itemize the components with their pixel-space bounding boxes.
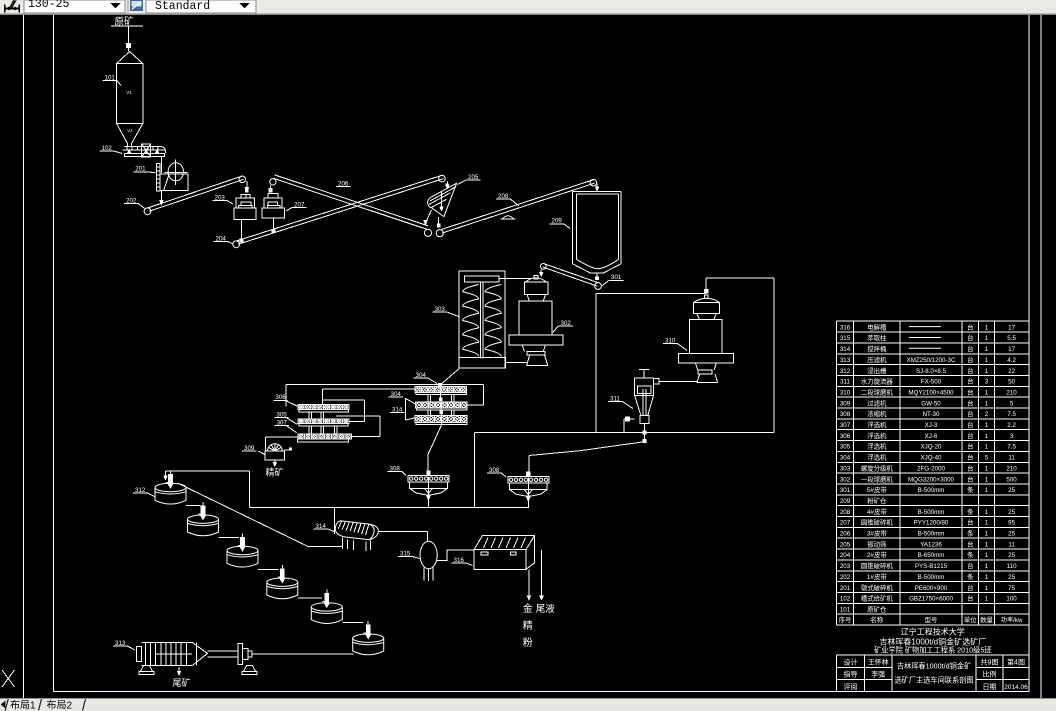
svg-text:110: 110 — [1007, 563, 1017, 570]
svg-text:MQY2100×4500: MQY2100×4500 — [908, 390, 954, 397]
svg-text:Standard: Standard — [155, 0, 210, 13]
table 314 legs — [342, 538, 344, 550]
svg-text:102: 102 — [840, 596, 851, 603]
svg-text:25: 25 — [1008, 531, 1015, 538]
svg-text:311: 311 — [840, 379, 850, 386]
svg-text:GW-50: GW-50 — [921, 400, 941, 407]
svg-text:振动筛: 振动筛 — [867, 539, 887, 548]
svg-text:207: 207 — [840, 520, 851, 527]
svg-text:设计: 设计 — [844, 657, 858, 667]
svg-text:22: 22 — [1008, 368, 1015, 375]
svg-text:1: 1 — [985, 476, 989, 483]
svg-text:台: 台 — [967, 561, 973, 570]
svg-text:共9图: 共9图 — [981, 657, 999, 667]
svg-text:B-500mm: B-500mm — [918, 531, 945, 538]
inter-row launders left bank — [309, 412, 312, 419]
layout tab 布局1 — [5, 699, 8, 711]
svg-text:条: 条 — [967, 550, 974, 559]
svg-text:B-500mm: B-500mm — [918, 509, 945, 516]
svg-text:203: 203 — [840, 563, 851, 570]
svg-text:台: 台 — [967, 388, 973, 397]
svg-text:数量: 数量 — [980, 615, 993, 624]
wire launder drop to shaking table 314 — [333, 508, 335, 535]
svg-text:25: 25 — [1008, 487, 1015, 494]
wire screen undersize to belt 208 — [438, 217, 440, 226]
svg-text:原矿仓: 原矿仓 — [867, 605, 887, 614]
wire right row2 overflow loop — [467, 404, 483, 406]
regrind circuit loop piping — [595, 294, 597, 433]
svg-text:1: 1 — [985, 531, 989, 538]
svg-text:1: 1 — [985, 563, 989, 570]
svg-text:颚式破碎机: 颚式破碎机 — [861, 583, 894, 592]
svg-text:50: 50 — [1008, 379, 1015, 386]
svg-text:5: 5 — [985, 455, 989, 462]
wire mill 310 discharge to cyclone feed — [659, 380, 698, 382]
svg-text:吉林珲春1000t/d铜金矿: 吉林珲春1000t/d铜金矿 — [897, 662, 971, 672]
application toolbar — [0, 0, 1056, 15]
wire belt 208 discharge into bin 209 — [590, 179, 597, 186]
svg-text:SJ-8.0×8.5: SJ-8.0×8.5 — [916, 368, 947, 375]
svg-text:202: 202 — [840, 574, 851, 581]
wire belt 204 discharge into screen — [447, 182, 449, 187]
belt 208 idler symbol — [503, 216, 514, 219]
thickener 308 right (浓缩机) — [508, 477, 549, 484]
svg-text:100: 100 — [1006, 596, 1017, 603]
svg-text:台: 台 — [967, 539, 973, 548]
svg-text:B-650mm: B-650mm — [918, 552, 945, 559]
belt conveyor 206 (3#皮带) tail pulley under screen — [424, 229, 431, 236]
svg-text:4#皮带: 4#皮带 — [867, 507, 887, 516]
svg-text:XMZ250/1200-3C: XMZ250/1200-3C — [907, 357, 956, 364]
svg-text:YA1236: YA1236 — [920, 541, 942, 548]
wire gold concentrate out — [528, 569, 530, 596]
UCS icon — [2, 670, 15, 687]
svg-text:台: 台 — [967, 344, 973, 353]
wire left thickener underflow — [427, 499, 429, 508]
svg-text:过滤机: 过滤机 — [867, 398, 887, 407]
layout tab scroll arrow — [1, 701, 6, 709]
wire barren solution out — [541, 550, 543, 597]
svg-text:303: 303 — [840, 465, 851, 472]
cyclone underflow pump — [626, 417, 630, 421]
title block grid — [837, 654, 1030, 656]
svg-text:130-25: 130-25 — [28, 0, 70, 11]
powder ore bin 209 (粉矿仓) — [572, 192, 621, 273]
svg-text:台: 台 — [967, 474, 973, 483]
svg-text:302: 302 — [840, 476, 851, 483]
svg-text:台: 台 — [967, 333, 973, 342]
toolbar text-style combo Standard — [146, 0, 256, 13]
svg-text:评阅: 评阅 — [844, 682, 858, 692]
drawing frame outer left edge — [23, 15, 25, 698]
wire filter 309 concentrate out — [274, 460, 276, 464]
svg-text:尾矿: 尾矿 — [173, 676, 191, 689]
svg-text:单位: 单位 — [964, 615, 977, 624]
drawing frame inner border — [53, 15, 55, 692]
svg-text:5: 5 — [1010, 400, 1014, 407]
svg-text:11: 11 — [1008, 541, 1015, 548]
svg-text:312: 312 — [840, 368, 851, 375]
wire screen oversize chute to belt 206 — [426, 210, 431, 222]
svg-text:7.5: 7.5 — [1007, 411, 1016, 418]
svg-text:1: 1 — [985, 552, 989, 559]
flow line through right bank — [439, 384, 442, 387]
svg-text:1: 1 — [985, 465, 989, 472]
svg-text:PYY1200/80: PYY1200/80 — [914, 520, 949, 527]
svg-text:1#皮带: 1#皮带 — [867, 572, 887, 581]
svg-text:精: 精 — [523, 617, 533, 632]
cleaner flotation bank row 2 (305) — [298, 419, 349, 424]
svg-text:序号: 序号 — [839, 615, 852, 624]
svg-text:矿业学院 矿物加工工程系 2010级5班: 矿业学院 矿物加工工程系 2010级5班 — [874, 646, 991, 656]
leach tank 6 — [353, 634, 384, 642]
wire cleaner concentrate to disc filter 309 — [265, 436, 297, 438]
wire launder drop to leach tank 1 — [165, 471, 167, 477]
svg-text:NT-30: NT-30 — [923, 411, 940, 418]
wire pregnant solution launder — [178, 483, 308, 546]
inter-row launders right bank — [428, 395, 431, 402]
svg-text:金: 金 — [523, 600, 533, 615]
svg-text:1: 1 — [985, 444, 989, 451]
svg-text:17: 17 — [1008, 324, 1015, 331]
wire cyclone overflow down to thickener 308 — [644, 424, 646, 442]
svg-text:浮选机: 浮选机 — [867, 453, 887, 462]
svg-text:V1: V1 — [126, 90, 132, 95]
svg-text:条: 条 — [967, 485, 974, 494]
svg-text:功率/kw: 功率/kw — [1001, 615, 1023, 624]
wire cone 203 discharge to belt 204 — [241, 219, 243, 241]
svg-text:5#皮带: 5#皮带 — [867, 485, 887, 494]
belt conveyor 301 (5#皮带) — [540, 264, 546, 270]
svg-text:1: 1 — [985, 390, 989, 397]
svg-text:台: 台 — [967, 398, 973, 407]
svg-text:台: 台 — [967, 431, 973, 440]
svg-text:314: 314 — [840, 346, 851, 353]
svg-text:萃取柱: 萃取柱 — [867, 333, 887, 342]
svg-text:1: 1 — [985, 335, 989, 342]
belt conveyor 202 (1#皮带) — [144, 208, 151, 215]
svg-text:第4图: 第4图 — [1007, 657, 1025, 667]
svg-text:210: 210 — [1006, 390, 1017, 397]
drawing frame outer right edge — [1040, 15, 1042, 698]
svg-text:条: 条 — [967, 529, 974, 538]
svg-text:1: 1 — [985, 400, 989, 407]
wire classifier overflow to rougher flotation — [440, 369, 459, 386]
wire jaw crusher discharge to belt 202 — [160, 191, 162, 202]
svg-text:V2: V2 — [127, 128, 133, 133]
leach tank 2 — [188, 515, 219, 523]
svg-text:XJQ-40: XJQ-40 — [921, 455, 943, 462]
ball mill 310 (二段球磨机) — [704, 295, 708, 298]
toolbar dimension-style icon — [4, 5, 20, 13]
wire column 315 to electrowinning cell 316 — [437, 550, 474, 561]
belt conveyor 204 (2#皮带) — [233, 241, 240, 248]
svg-text:2: 2 — [985, 411, 989, 418]
svg-text:95: 95 — [1008, 520, 1015, 527]
svg-text:台: 台 — [967, 453, 973, 462]
svg-text:1: 1 — [985, 433, 989, 440]
rougher flotation bank row 2 — [416, 402, 467, 408]
svg-text:王怀林: 王怀林 — [868, 657, 889, 667]
svg-text:粉矿仓: 粉矿仓 — [867, 496, 887, 505]
svg-text:2#皮带: 2#皮带 — [867, 550, 887, 559]
svg-text:浮选机: 浮选机 — [867, 431, 887, 440]
svg-text:台: 台 — [967, 463, 973, 472]
cone crusher 207 (圆锥破碎机) — [269, 189, 272, 192]
extraction column 315 (萃取柱) — [420, 541, 437, 569]
leach tank 1 — [155, 483, 186, 491]
filter press 313 (压滤机) — [137, 647, 142, 662]
svg-text:5.5: 5.5 — [1007, 335, 1016, 342]
svg-text:二段球磨机: 二段球磨机 — [861, 388, 894, 397]
wire belt 301 discharge into ball mill 302 — [540, 269, 542, 273]
svg-text:3#皮带: 3#皮带 — [867, 529, 887, 538]
svg-text:电解槽: 电解槽 — [867, 322, 887, 331]
svg-text:1: 1 — [985, 487, 989, 494]
electrowinning cell 316 (电解槽) — [474, 550, 526, 570]
svg-text:1: 1 — [985, 541, 989, 548]
svg-text:台: 台 — [967, 442, 973, 451]
wire table 314 to extraction column 315 — [379, 531, 427, 533]
svg-text:原矿: 原矿 — [115, 14, 135, 28]
wire classifier sands return to mill 302 — [499, 278, 531, 280]
wire press tailings out — [178, 667, 180, 673]
rougher flotation bank 304 row 1 — [415, 387, 466, 393]
svg-text:205: 205 — [840, 541, 851, 548]
svg-text:B-500mm: B-500mm — [918, 487, 945, 494]
svg-text:比例: 比例 — [983, 669, 997, 679]
svg-text:11: 11 — [1008, 455, 1015, 462]
wire right bank row3 to thickener 308 — [428, 424, 442, 454]
svg-text:1: 1 — [985, 574, 989, 581]
svg-text:1: 1 — [985, 324, 989, 331]
svg-text:台: 台 — [967, 409, 973, 418]
wire belt 202 discharge to cone crusher 203 — [246, 181, 248, 189]
svg-text:1: 1 — [985, 422, 989, 429]
svg-text:XJ-3: XJ-3 — [925, 422, 938, 429]
wire mill 302 discharge to classifier — [506, 361, 527, 363]
svg-text:2.2: 2.2 — [1007, 422, 1016, 429]
belt conveyor 208 (4#皮带) — [436, 230, 443, 237]
leach tank 3 — [227, 546, 258, 554]
leach tank 4 — [267, 578, 298, 586]
svg-text:FX-500: FX-500 — [921, 379, 942, 386]
svg-text:2FG-2000: 2FG-2000 — [917, 465, 945, 472]
thickener 308 left (浓缩机) — [408, 475, 449, 482]
svg-text:台: 台 — [967, 377, 973, 386]
cone crusher 203 (圆锥破碎机) — [246, 189, 249, 192]
svg-text:313: 313 — [840, 357, 851, 364]
svg-text:浮选机: 浮选机 — [867, 442, 887, 451]
jaw crusher 201 (颚式破碎机) — [160, 156, 162, 172]
svg-text:25: 25 — [1008, 552, 1015, 559]
wire thickener underflow launder to leach tanks — [166, 470, 250, 472]
feeder 102 (槽式给矿机) — [124, 146, 161, 148]
svg-text:精矿: 精矿 — [266, 466, 284, 479]
svg-text:名称: 名称 — [870, 615, 883, 624]
svg-text:301: 301 — [840, 487, 851, 494]
svg-text:MQG3200×3000: MQG3200×3000 — [908, 476, 954, 483]
svg-text:圆锥破碎机: 圆锥破碎机 — [861, 518, 894, 527]
svg-text:XJQ-20: XJQ-20 — [921, 444, 943, 451]
wire leach tank 6 to filter press — [252, 653, 353, 655]
svg-text:310: 310 — [840, 390, 851, 397]
hydrocyclone 311 (水力旋流器) — [639, 369, 650, 371]
filter press feet — [141, 666, 153, 672]
svg-text:1: 1 — [985, 520, 989, 527]
svg-text:308: 308 — [840, 411, 851, 418]
svg-text:500: 500 — [1006, 476, 1017, 483]
ball mill 302 (一段球磨机) — [534, 276, 538, 280]
svg-text:3: 3 — [985, 379, 989, 386]
svg-text:选矿厂主选车间联系剖图: 选矿厂主选车间联系剖图 — [894, 676, 973, 686]
svg-text:208: 208 — [840, 509, 851, 516]
svg-text:209: 209 — [840, 498, 851, 505]
wire right thickener underflow — [527, 500, 529, 508]
svg-text:台: 台 — [967, 583, 973, 592]
svg-text:75: 75 — [1008, 585, 1015, 592]
toolbar text-style icon — [130, 0, 143, 11]
svg-text:2014.06: 2014.06 — [1004, 684, 1028, 691]
svg-text:台: 台 — [967, 594, 973, 603]
svg-text:布局2: 布局2 — [47, 697, 73, 711]
svg-text:315: 315 — [840, 335, 851, 342]
svg-text:浮选机: 浮选机 — [867, 420, 887, 429]
svg-text:25: 25 — [1008, 574, 1015, 581]
wire belt 206 discharge into cone crusher 207 — [270, 185, 272, 190]
svg-text:101: 101 — [840, 607, 851, 614]
svg-text:304: 304 — [840, 455, 851, 462]
svg-text:25: 25 — [1008, 509, 1015, 516]
silo 101 (原矿仓) — [117, 64, 143, 124]
svg-text:条: 条 — [967, 507, 974, 516]
equipment table frame — [837, 320, 1030, 322]
svg-text:XJ-6: XJ-6 — [925, 433, 938, 440]
spiral classifier 303 (螺旋分级机) — [459, 271, 505, 368]
disc filter 309 (过滤机) — [268, 444, 283, 451]
wire bin 209 outlet to belt 301 — [596, 273, 598, 277]
svg-text:水力旋流器: 水力旋流器 — [861, 377, 894, 386]
svg-text:日期: 日期 — [983, 682, 997, 692]
svg-text:一段球磨机: 一段球磨机 — [861, 474, 894, 483]
svg-text:圆锥破碎机: 圆锥破碎机 — [861, 561, 894, 570]
svg-text:PYS-B1215: PYS-B1215 — [915, 563, 948, 570]
svg-text:型号: 型号 — [925, 615, 938, 624]
svg-text:浸出槽: 浸出槽 — [867, 366, 887, 375]
svg-text:306: 306 — [840, 433, 851, 440]
svg-text:316: 316 — [840, 324, 851, 331]
toolbar dim-style combo 130-25 — [24, 0, 125, 13]
svg-text:GBZ1750×6000: GBZ1750×6000 — [909, 596, 953, 603]
svg-text:17: 17 — [1008, 346, 1015, 353]
wire rougher feed line to cleaner bank — [286, 384, 484, 386]
svg-text:粉: 粉 — [523, 634, 533, 649]
svg-text:PE600×900: PE600×900 — [915, 585, 948, 592]
svg-text:201: 201 — [840, 585, 851, 592]
svg-text:布局1: 布局1 — [10, 697, 36, 711]
svg-text:204: 204 — [840, 552, 851, 559]
wire cone 207 discharge to belt 204 — [273, 218, 275, 231]
svg-text:307: 307 — [840, 422, 851, 429]
svg-text:1: 1 — [985, 346, 989, 353]
svg-text:206: 206 — [840, 531, 851, 538]
cleaner flotation bank row 3 (307) — [298, 434, 352, 439]
svg-text:李强: 李强 — [871, 669, 885, 679]
svg-text:3: 3 — [1010, 433, 1014, 440]
wire raw ore into silo — [128, 48, 130, 52]
svg-text:1: 1 — [985, 357, 989, 364]
svg-text:台: 台 — [967, 420, 973, 429]
svg-text:螺旋分级机: 螺旋分级机 — [861, 463, 894, 472]
svg-text:台: 台 — [967, 355, 973, 364]
svg-text:条: 条 — [967, 572, 974, 581]
svg-text:7.5: 7.5 — [1007, 444, 1016, 451]
svg-text:槽式给矿机: 槽式给矿机 — [861, 594, 894, 603]
svg-text:浓缩机: 浓缩机 — [867, 409, 887, 418]
svg-text:指导: 指导 — [844, 669, 858, 679]
svg-text:尾液: 尾液 — [536, 601, 556, 615]
shaking table 314 (搅拌桶) — [335, 521, 378, 540]
leach tank 5 — [311, 603, 342, 611]
svg-text:210: 210 — [1006, 465, 1017, 472]
rougher flotation bank row 3 — [415, 416, 467, 423]
svg-text:4.2: 4.2 — [1007, 357, 1016, 364]
cleaner bank launder loops — [322, 399, 364, 401]
svg-text:1: 1 — [985, 585, 989, 592]
svg-text:305: 305 — [840, 444, 851, 451]
cleaner flotation bank row 1 (306) — [298, 404, 349, 409]
svg-text:台: 台 — [967, 366, 973, 375]
inter-tank launders — [186, 505, 201, 507]
svg-text:搅拌桶: 搅拌桶 — [867, 344, 886, 353]
svg-text:压滤机: 压滤机 — [867, 355, 887, 364]
svg-text:B-500mm: B-500mm — [918, 574, 945, 581]
svg-text:1: 1 — [985, 596, 989, 603]
belt 206 to cone crusher 207 — [274, 178, 428, 229]
svg-text:1: 1 — [985, 368, 989, 375]
svg-text:台: 台 — [967, 322, 973, 331]
svg-text:309: 309 — [840, 400, 851, 407]
svg-text:台: 台 — [967, 518, 973, 527]
svg-text:1: 1 — [985, 509, 989, 516]
